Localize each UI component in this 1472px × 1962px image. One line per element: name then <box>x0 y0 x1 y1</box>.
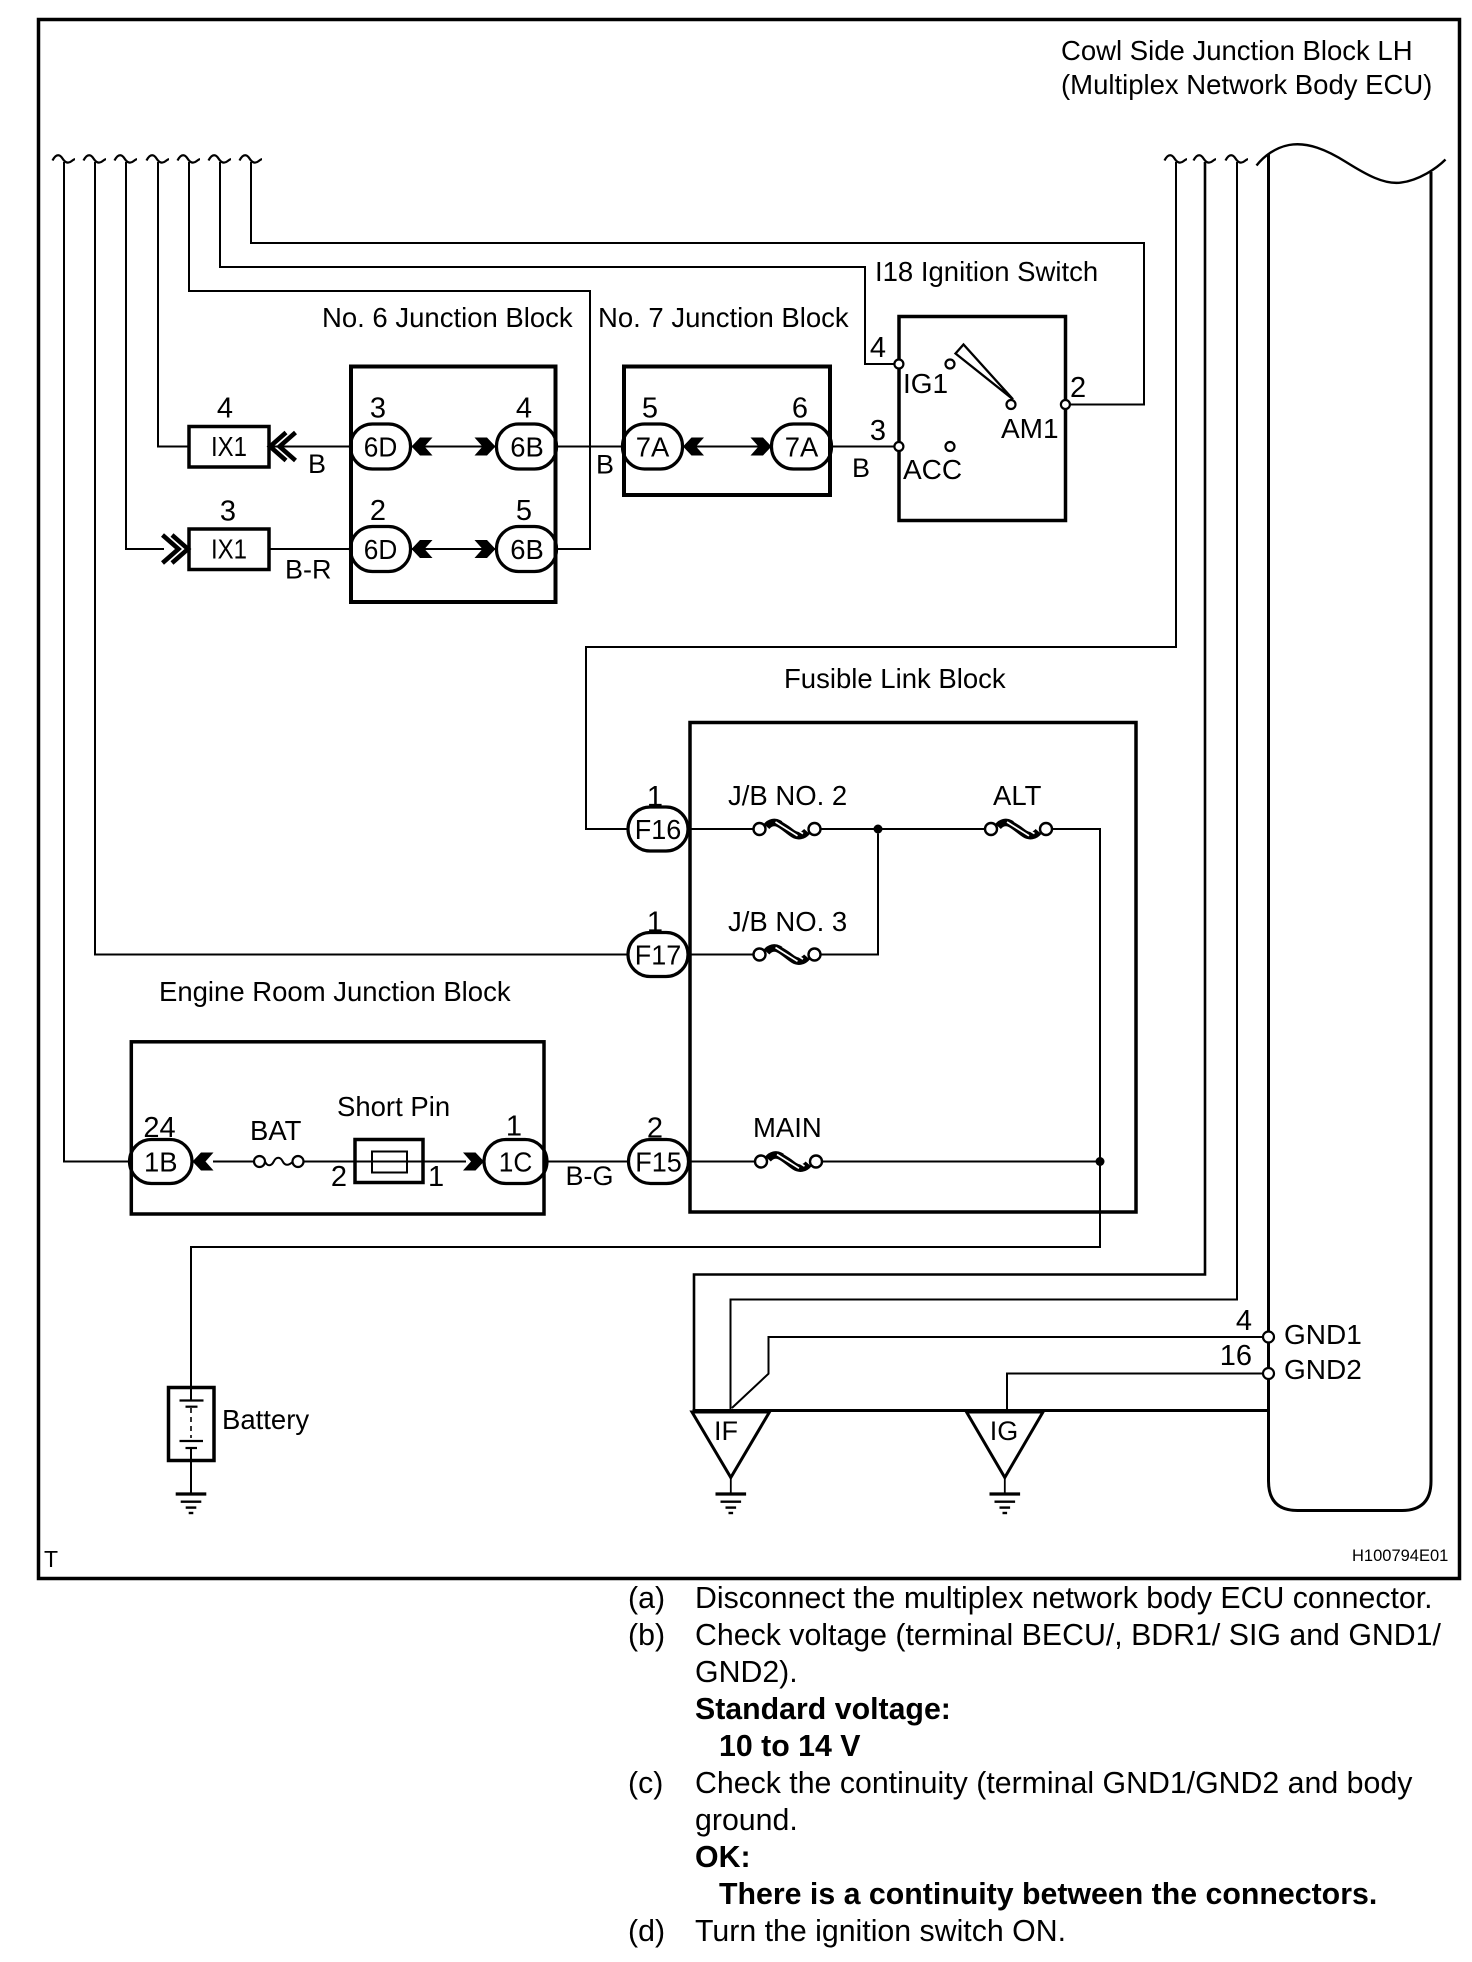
svg-text:2: 2 <box>331 1161 347 1193</box>
svg-text:5: 5 <box>516 495 532 527</box>
svg-text:GND2: GND2 <box>1284 1354 1362 1385</box>
svg-text:(c): (c) <box>628 1767 663 1800</box>
svg-text:4: 4 <box>870 332 886 364</box>
svg-text:T: T <box>44 1546 58 1572</box>
svg-text:1: 1 <box>647 781 663 813</box>
svg-text:B: B <box>308 449 326 479</box>
svg-text:6: 6 <box>792 393 808 425</box>
svg-text:AM1: AM1 <box>1001 413 1059 444</box>
svg-text:Turn the ignition switch ON.: Turn the ignition switch ON. <box>695 1915 1066 1948</box>
svg-text:Check the continuity (terminal: Check the continuity (terminal GND1/GND2… <box>695 1767 1413 1800</box>
svg-text:3: 3 <box>870 415 886 447</box>
svg-text:Short Pin: Short Pin <box>337 1091 450 1122</box>
svg-text:Disconnect the multiplex netwo: Disconnect the multiplex network body EC… <box>695 1582 1433 1615</box>
svg-text:2: 2 <box>1070 372 1086 404</box>
svg-text:B: B <box>852 453 870 483</box>
svg-text:1: 1 <box>506 1111 522 1143</box>
svg-text:Battery: Battery <box>222 1404 309 1435</box>
svg-text:GND1: GND1 <box>1284 1319 1362 1350</box>
svg-text:J/B NO. 3: J/B NO. 3 <box>728 906 847 937</box>
svg-text:10 to 14 V: 10 to 14 V <box>719 1730 860 1763</box>
svg-text:B-G: B-G <box>566 1161 614 1191</box>
svg-text:No. 7 Junction Block: No. 7 Junction Block <box>598 302 849 333</box>
svg-text:4: 4 <box>516 393 532 425</box>
svg-text:1C: 1C <box>499 1147 533 1178</box>
svg-text:2: 2 <box>647 1113 663 1145</box>
svg-text:H100794E01: H100794E01 <box>1352 1547 1448 1565</box>
svg-text:F16: F16 <box>635 814 682 845</box>
svg-text:ACC: ACC <box>903 454 962 485</box>
svg-text:6D: 6D <box>364 534 398 565</box>
svg-text:7A: 7A <box>636 432 670 463</box>
svg-text:J/B NO. 2: J/B NO. 2 <box>728 780 847 811</box>
svg-text:16: 16 <box>1220 1340 1252 1372</box>
svg-text:B-R: B-R <box>285 555 332 585</box>
svg-text:(d): (d) <box>628 1915 665 1948</box>
svg-text:6B: 6B <box>510 432 544 463</box>
svg-text:B: B <box>596 450 614 480</box>
svg-text:1: 1 <box>428 1161 444 1193</box>
svg-text:IF: IF <box>714 1416 738 1446</box>
svg-text:Fusible Link Block: Fusible Link Block <box>784 663 1006 694</box>
svg-text:GND2).: GND2). <box>695 1656 798 1689</box>
svg-text:IX1: IX1 <box>211 534 247 565</box>
svg-text:BAT: BAT <box>250 1115 302 1146</box>
svg-text:Standard voltage:: Standard voltage: <box>695 1693 951 1726</box>
svg-text:Check voltage (terminal BECU/,: Check voltage (terminal BECU/, BDR1/ SIG… <box>695 1619 1441 1652</box>
svg-text:24: 24 <box>143 1112 175 1144</box>
svg-text:3: 3 <box>370 393 386 425</box>
svg-text:Engine Room Junction Block: Engine Room Junction Block <box>159 976 511 1007</box>
svg-text:I18 Ignition Switch: I18 Ignition Switch <box>875 256 1098 287</box>
svg-text:2: 2 <box>370 495 386 527</box>
svg-text:3: 3 <box>220 496 236 528</box>
svg-text:6B: 6B <box>510 534 544 565</box>
svg-text:5: 5 <box>642 393 658 425</box>
svg-text:6D: 6D <box>364 432 398 463</box>
svg-text:4: 4 <box>217 393 233 425</box>
svg-text:4: 4 <box>1236 1305 1252 1337</box>
svg-text:(b): (b) <box>628 1619 665 1652</box>
svg-text:IG: IG <box>990 1416 1019 1446</box>
svg-text:(Multiplex Network Body ECU): (Multiplex Network Body ECU) <box>1061 69 1432 100</box>
svg-text:(a): (a) <box>628 1582 665 1615</box>
svg-text:F17: F17 <box>635 940 682 971</box>
svg-text:Cowl Side Junction Block LH: Cowl Side Junction Block LH <box>1061 35 1413 66</box>
svg-text:IG1: IG1 <box>903 368 948 399</box>
svg-text:ALT: ALT <box>993 780 1042 811</box>
svg-text:1B: 1B <box>144 1147 178 1178</box>
svg-text:There is a continuity between: There is a continuity between the connec… <box>719 1878 1377 1911</box>
svg-text:F15: F15 <box>635 1147 682 1178</box>
svg-text:No. 6 Junction Block: No. 6 Junction Block <box>322 302 573 333</box>
svg-text:1: 1 <box>647 907 663 939</box>
svg-text:7A: 7A <box>785 432 819 463</box>
svg-text:MAIN: MAIN <box>753 1112 822 1143</box>
svg-text:OK:: OK: <box>695 1841 751 1874</box>
svg-text:IX1: IX1 <box>211 431 247 462</box>
svg-text:ground.: ground. <box>695 1804 798 1837</box>
